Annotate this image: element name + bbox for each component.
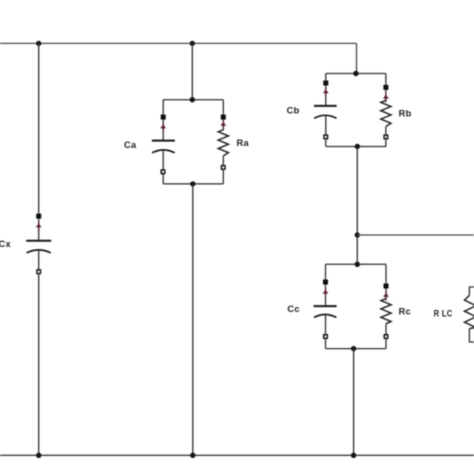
pin square Cx bottom (hollow)	[36, 269, 41, 274]
pin arrow Cc (red)	[323, 288, 329, 297]
node junction tap to R LC	[355, 232, 360, 237]
node junction top-middle	[190, 41, 195, 46]
wire horizontal tap to right edge	[357, 234, 474, 236]
svg-text:Rb: Rb	[399, 109, 412, 119]
svg-text:Rc: Rc	[399, 307, 412, 317]
svg-text:R LC: R LC	[434, 308, 453, 318]
pin square Ca top	[161, 115, 166, 120]
pin arrow Rc (red)	[383, 291, 389, 300]
wire Cc/Rc bottom bar	[326, 348, 387, 350]
capacitor Cc plates	[314, 305, 337, 307]
node junction Cb/Rb top	[353, 71, 358, 76]
node junction bottom-middle	[190, 453, 195, 458]
pin arrow Ca (red)	[160, 123, 166, 132]
wire Cb/Rb top bar	[326, 73, 386, 75]
pin square Ra top	[221, 115, 226, 120]
capacitor Ca plates	[152, 140, 175, 142]
wire Cc/Rc top bar	[326, 263, 387, 265]
svg-text:Ra: Ra	[237, 138, 250, 148]
svg-text:Cc: Cc	[287, 304, 300, 314]
node junction Cb/Rb bottom	[355, 144, 360, 149]
wire Cc branch upper	[325, 264, 327, 305]
wire Ca/Ra bottom bar	[163, 183, 223, 185]
node junction bottom-right	[351, 453, 356, 458]
wire Ra branch lower	[222, 156, 224, 184]
resistor R LC lead bottom	[469, 329, 474, 343]
wire Rc branch upper	[385, 264, 387, 299]
pin square Ra bottom (hollow)	[221, 165, 226, 170]
wire top bus corner down to Cb/Rb	[356, 43, 358, 73]
wire vertical-3 middle (Cb/Rb to Cc/Rc)	[356, 147, 358, 265]
wire Cb/Rb bottom bar	[326, 146, 386, 148]
pin square Cc top	[323, 280, 328, 285]
pin arrow Cx (red)	[36, 222, 42, 231]
wire Rb branch lower	[385, 127, 387, 147]
wire vertical-2 lower (Ca/Ra to bottom bus)	[192, 184, 194, 455]
wire vertical-2 upper (top bus to Ca/Ra)	[191, 43, 193, 99]
pin square Cb top	[323, 81, 328, 86]
svg-text:Cb: Cb	[287, 105, 300, 115]
pin square Cx top	[36, 214, 41, 219]
pin square Cc bottom (hollow)	[323, 334, 328, 339]
resistor R LC zigzag	[465, 295, 474, 328]
capacitor Cx plates	[26, 240, 51, 242]
wire left vertical upper (above Cx)	[38, 43, 40, 240]
wire Cc branch lower	[325, 315, 327, 348]
resistor Ra zigzag	[218, 130, 228, 156]
pin arrow Ra (red)	[220, 120, 226, 129]
wire Cb branch lower	[325, 116, 327, 146]
wire bottom bus	[0, 454, 474, 456]
svg-text:Cx: Cx	[0, 239, 12, 249]
resistor R LC lead top	[469, 287, 474, 295]
wire top bus	[0, 42, 357, 44]
resistor Rb zigzag	[381, 100, 391, 126]
node junction Cc/Rc top	[355, 262, 360, 267]
wire Ca branch upper	[162, 100, 164, 140]
pin square Rc bottom (hollow)	[384, 334, 389, 339]
pin square Ca bottom (hollow)	[161, 169, 166, 174]
pin arrow Rb (red)	[383, 93, 389, 102]
svg-text:Ca: Ca	[124, 140, 137, 150]
node junction Cc/Rc bottom	[351, 346, 356, 351]
wire Ra branch upper	[222, 100, 224, 130]
pin arrow Cb (red)	[323, 88, 329, 97]
wire Ca branch lower	[162, 151, 164, 184]
wire Rc branch lower	[385, 324, 387, 349]
resistor Rc zigzag	[381, 299, 391, 324]
pin square Rc top	[384, 284, 389, 289]
pin square Rb top	[383, 85, 388, 90]
wire vertical-3 lower (Cc/Rc to bottom bus)	[353, 349, 355, 456]
node junction top-left	[36, 41, 41, 46]
wire Ca/Ra top bar	[163, 99, 223, 101]
node junction Ca/Ra top	[190, 97, 195, 102]
pin square Cb bottom (hollow)	[323, 134, 328, 139]
node junction bottom-left	[36, 453, 41, 458]
node junction Ca/Ra bottom	[190, 181, 195, 186]
wire left vertical lower (below Cx)	[38, 251, 40, 456]
wire Rb branch upper	[385, 74, 387, 101]
pin square Rb bottom (hollow)	[383, 134, 388, 139]
wire Cb branch upper	[325, 74, 327, 106]
capacitor Cb plates	[314, 105, 337, 107]
